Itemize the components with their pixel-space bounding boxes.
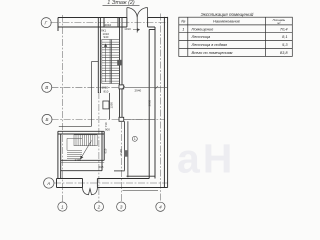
svg-text:1: 1 [134, 137, 136, 141]
svg-text:70,4: 70,4 [280, 26, 288, 31]
shaft box [103, 60, 121, 120]
top double door swing [127, 8, 148, 33]
svg-text:83,8: 83,8 [280, 50, 288, 55]
svg-text:Экспликация помещений: Экспликация помещений [201, 11, 254, 17]
landing bracket [67, 138, 82, 150]
svg-text:Помещение: Помещение [192, 26, 215, 31]
axis 1 vertical [62, 15, 64, 202]
svg-text:1010: 1010 [124, 27, 131, 31]
axis Б continues right [124, 118, 165, 120]
axis circle 3 [117, 202, 126, 211]
axis 2 vertical [98, 92, 100, 202]
svg-text:Лестница в подвал: Лестница в подвал [191, 42, 228, 47]
svg-text:2010: 2010 [105, 23, 112, 27]
basement stair enclosure [58, 131, 104, 178]
svg-text:619: 619 [103, 148, 107, 153]
svg-text:А: А [46, 181, 50, 186]
pier on partition [124, 150, 128, 157]
bottom door jambs [82, 179, 84, 188]
flight divider [109, 40, 111, 84]
svg-text:3930: 3930 [148, 99, 152, 106]
axis circle 1 [58, 202, 67, 211]
svg-text:8,1: 8,1 [282, 34, 287, 39]
top door jambs [126, 18, 128, 28]
svg-text:1: 1 [182, 26, 184, 31]
room number circle 1 [132, 136, 137, 141]
svg-text:618: 618 [99, 165, 104, 169]
axis 4 vertical [160, 14, 162, 203]
svg-text:3165: 3165 [119, 149, 123, 156]
stairwell ЛК1 walls [98, 18, 122, 118]
small dimension texts [75, 23, 152, 169]
axis circle 4 [156, 202, 165, 211]
lower flight treads [67, 151, 82, 153]
right inner furring lines [148, 30, 150, 179]
dimension line below bottom wall [123, 190, 159, 192]
axis Б horizontal [52, 118, 123, 120]
bottom wall inner face [57, 178, 83, 180]
explication table text [181, 18, 288, 55]
stairwell ЛК1 stair flight [102, 40, 120, 84]
dimension line basement stair [61, 162, 104, 164]
svg-text:№: № [181, 19, 186, 24]
svg-text:810: 810 [104, 90, 109, 94]
axis Г horizontal [50, 22, 167, 24]
wall below stairwell [109, 93, 111, 119]
bottom wall inner ledge [127, 175, 156, 177]
svg-text:2940: 2940 [135, 89, 142, 93]
svg-text:Г: Г [45, 20, 48, 25]
plan title: 1 Этаж (2) [103, 0, 140, 6]
bottom wall left end cap [56, 179, 58, 188]
axis grid lines [50, 14, 167, 203]
window ticks in top wall [103, 18, 105, 28]
bottom wall outer face [57, 187, 83, 189]
column node В/3 [119, 85, 124, 121]
axis circle Г [41, 18, 165, 212]
axis circle В [42, 82, 52, 92]
svg-text:Всего по помещениям: Всего по помещениям [192, 50, 233, 55]
entrance double door swing [83, 188, 98, 195]
basement stair upper flight treads [67, 135, 97, 161]
axis 3 vertical [120, 122, 122, 202]
right wall inner leaf [163, 17, 165, 188]
svg-text:900: 900 [105, 128, 110, 132]
axis А horizontal [54, 182, 168, 184]
watermark [177, 136, 235, 182]
svg-text:Лестница: Лестница [191, 34, 212, 39]
svg-text:Б: Б [46, 117, 49, 122]
svg-text:1: 1 [61, 204, 64, 209]
explication table grid [179, 17, 292, 56]
axis circle labels [45, 20, 163, 209]
interior thin partition [59, 62, 99, 127]
svg-text:2: 2 [97, 204, 101, 209]
axis circle Б [42, 114, 52, 124]
top wall outer face [58, 17, 127, 19]
svg-text:аН: аН [177, 136, 235, 182]
axis В horizontal [51, 86, 123, 88]
basement stair down arrow [81, 141, 92, 159]
dimension line Б row [124, 118, 155, 120]
dimension line top right [133, 29, 140, 31]
partition on axis 3 below Б [114, 121, 128, 177]
axis circle А [44, 178, 54, 188]
column node Б/3 [119, 117, 124, 121]
svg-text:940: 940 [104, 35, 109, 39]
top wall left end cap [57, 18, 59, 32]
svg-text:Наименование: Наименование [213, 19, 241, 24]
svg-text:4: 4 [159, 205, 162, 210]
svg-text:5,3: 5,3 [282, 42, 288, 47]
axis circle 2 [94, 202, 103, 211]
svg-text:3: 3 [120, 204, 123, 209]
top wall inner face [58, 26, 127, 28]
walls [57, 17, 168, 188]
svg-text:1400: 1400 [75, 158, 82, 162]
svg-text:1295: 1295 [110, 102, 114, 109]
stair up arrow [105, 44, 107, 82]
right wall outer face [167, 17, 169, 188]
svg-text:В: В [45, 85, 48, 90]
svg-text:719: 719 [104, 122, 108, 127]
dimension line В row [61, 30, 168, 191]
